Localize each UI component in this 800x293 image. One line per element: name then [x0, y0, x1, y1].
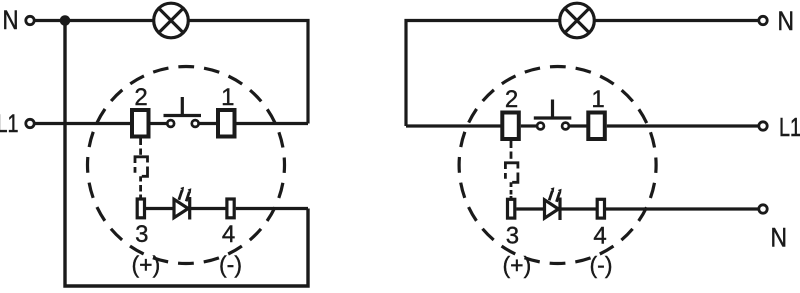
wire button to terminal 1 [200, 122, 217, 125]
terminal 3 (right) [508, 199, 515, 218]
push-button bridge bar [164, 114, 202, 117]
svg-text:N: N [771, 223, 788, 253]
svg-text:L1: L1 [779, 112, 800, 142]
wire top loop left vertical [406, 21, 560, 127]
dashed link lower (right) [510, 190, 513, 195]
terminal N (right bottom) open circle [759, 205, 767, 213]
push-button S1 contacts [167, 120, 174, 127]
wire lamp to N terminal [594, 19, 759, 22]
LED arrow 2 (right) [557, 189, 562, 202]
wire terminal 3 to LED (right) [516, 207, 544, 210]
dashed enclosure circle (right switch) [459, 67, 656, 264]
svg-text:1: 1 [591, 86, 604, 113]
stub below terminal 2 [139, 139, 142, 146]
push-button S2 contacts [537, 123, 544, 130]
wire N terminal to lamp [35, 19, 155, 22]
terminal 1 (left) [218, 110, 235, 137]
wire terminal 1 to right vertical [237, 122, 309, 125]
wire L1 to terminal 2 [35, 122, 131, 125]
lamp E2 (circle with X) [560, 3, 595, 38]
terminal 2 (left) [132, 110, 149, 137]
dashed element box (right) [505, 161, 518, 187]
svg-text:(+): (+) [503, 252, 532, 278]
terminal L1 (right) open circle [759, 122, 767, 130]
wire terminal 4 to N terminal (right bottom) [606, 207, 759, 210]
terminal 1 (right) [588, 113, 605, 140]
dashed enclosure circle (left switch) [88, 67, 285, 264]
LED D2 triangle [545, 200, 559, 218]
svg-text:2: 2 [134, 84, 147, 111]
svg-text:N: N [3, 5, 19, 35]
LED arrow 1 (right) [549, 187, 554, 200]
wire N branch down and bottom return [65, 21, 308, 287]
terminal N (left) open circle [26, 16, 34, 24]
terminal 4 (left) [227, 199, 234, 218]
wire terminal2 to button (right) [521, 124, 537, 127]
svg-text:2: 2 [505, 86, 518, 113]
dashed link lower [139, 185, 142, 192]
terminal 2 (right) [502, 113, 519, 140]
dashed link upper (right) [510, 152, 513, 159]
wire terminal 3 to LED [146, 207, 174, 210]
wire LED to terminal 4 (right) [561, 207, 596, 210]
LED cathode bar [188, 197, 191, 220]
terminal 4 (right) [597, 199, 604, 218]
wire terminal 4 to right vertical [236, 207, 308, 210]
svg-text:3: 3 [506, 223, 519, 250]
svg-text:(+): (+) [132, 252, 161, 278]
svg-text:N: N [778, 6, 795, 36]
svg-text:(-): (-) [590, 252, 613, 278]
wire button to terminal 1 (right) [570, 124, 587, 127]
svg-text:3: 3 [135, 221, 148, 248]
terminal N (right top) open circle [759, 16, 767, 24]
svg-text:4: 4 [593, 223, 606, 250]
svg-text:4: 4 [222, 221, 235, 248]
terminal 3 (left) [137, 199, 144, 218]
wire lamp to right, down to L1 row [188, 21, 308, 124]
svg-text:L1: L1 [0, 110, 19, 138]
push-button stem (right) [551, 100, 554, 119]
junction dot on N wire [60, 15, 71, 26]
svg-text:1: 1 [221, 84, 234, 111]
wire terminal2 to button [151, 122, 167, 125]
dashed link upper [139, 149, 142, 155]
LED arrow 1 [179, 187, 184, 200]
lamp E1 (circle with X) [154, 3, 189, 38]
wire terminal 1 to L1 terminal [607, 124, 759, 127]
push-button bridge bar (right) [534, 116, 572, 119]
wire L1 row left segment [406, 124, 501, 127]
dashed element box [135, 155, 148, 181]
stub above terminal 3 (right) [510, 196, 513, 201]
svg-text:(-): (-) [219, 252, 242, 278]
LED arrow 2 [186, 188, 191, 201]
stub above terminal 3 [139, 195, 142, 200]
LED cathode bar (right) [558, 198, 561, 221]
wire LED to terminal 4 [191, 207, 226, 210]
terminal L1 (left) open circle [26, 119, 34, 127]
LED D1 triangle [174, 199, 188, 217]
push-button stem [181, 97, 184, 116]
stub below terminal 2 (right) [510, 141, 513, 148]
